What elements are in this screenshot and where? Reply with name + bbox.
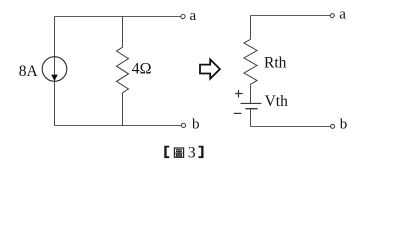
svg-text:a: a <box>190 8 197 24</box>
svg-text:Vth: Vth <box>265 93 289 110</box>
svg-text:8A: 8A <box>19 63 39 80</box>
svg-text:Rth: Rth <box>264 55 287 72</box>
svg-text:b: b <box>192 117 200 133</box>
svg-text:a: a <box>339 6 346 22</box>
svg-text:4Ω: 4Ω <box>132 61 152 78</box>
svg-text:b: b <box>340 117 348 133</box>
svg-text:3: 3 <box>188 145 196 162</box>
